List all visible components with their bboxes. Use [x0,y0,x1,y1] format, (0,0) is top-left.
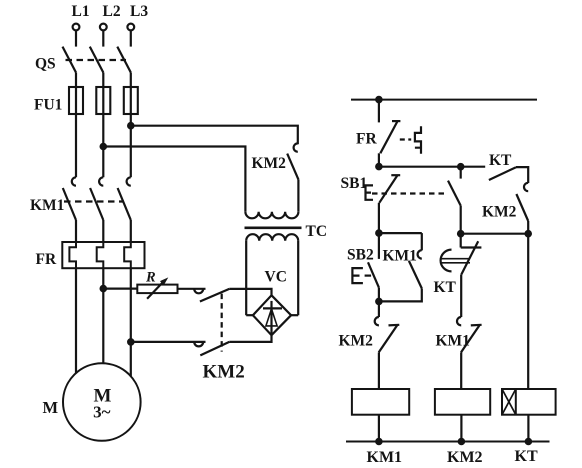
timer KT delay lines [442,259,471,263]
transformer TC primary winding [245,212,298,219]
contactor KM1 main pole2 fixed hook [99,177,103,185]
contactor KM1 main pole1 fixed hook [72,177,76,185]
coil KM2 [435,389,490,415]
timer KT delayed NC contact tick [461,246,482,248]
svg-text:L3: L3 [130,3,148,20]
button SB1 linkage dashed [372,192,447,194]
contactor KM2 braking contact upper blade [200,289,229,302]
thermal relay FR box [62,242,144,268]
wire resistor to KM2 braking contact [178,288,206,290]
wire KM1 coil to rail [378,415,380,442]
thermal relay FR NC contact blade [380,121,397,153]
timer KT delay arc [441,250,452,272]
wire node C to node D [461,233,529,235]
wire KT coil to rail [527,415,529,442]
wire L3 QS to KM1 [130,73,132,178]
node tap L3 to KM2/TC [128,123,133,128]
svg-text:KT: KT [515,448,538,465]
switch QS pole2 blade [90,47,104,73]
svg-text:VC: VC [265,269,287,286]
wire KM2 braking lower to VC minus [229,335,271,342]
contactor KM1 NC fixed hook [457,317,461,325]
rectifier VC bridge diamond [253,295,291,335]
control circuit bottom rail [346,441,550,443]
wire stub VC right [291,314,298,316]
button SB1 NO pole wire top [460,167,462,179]
coil KT cross X [502,389,516,415]
wire SB2 to node E [378,288,380,302]
wire TC secondary left to VC [245,241,247,316]
motor M circle [63,363,141,441]
transformer TC core [245,227,302,230]
switch QS pole1 blade [63,47,77,73]
thermal relay FR NC contact tick [392,120,400,122]
wire FR pole3 to motor [130,268,132,376]
fuse FU1 pole3 [124,87,138,114]
wire KT contact to KM2 NC [516,167,528,183]
wire node E to KM2 NC [378,301,380,317]
coil KT [502,389,556,415]
svg-text:SB2: SB2 [347,247,374,264]
node tap L3 braking [128,339,133,344]
svg-text:KM1: KM1 [367,449,403,466]
resistor R arrowhead [160,277,168,285]
node A junction [376,164,381,169]
svg-text:KM2: KM2 [482,204,517,221]
wire tap to resistor R [103,288,137,290]
contactor KM2 contact blade (transformer feed) [287,154,298,180]
wire node C to KT delayed contact [460,234,462,248]
wire KT delayed contact to KM1 NC [460,274,462,317]
svg-text:KM1: KM1 [30,197,64,214]
button SB1 NO pole blade [448,181,461,206]
svg-text:FU1: FU1 [34,97,62,114]
contactor KM1 main pole1 blade [63,188,76,220]
node KM2 rail junction [459,439,464,444]
wire SB1 to node B [378,203,380,233]
wire KM2 braking upper to VC plus [229,289,271,296]
rectifier VC diode triangle [266,309,277,326]
thermal relay FR trip dashed link [400,138,411,140]
resistor R body [137,285,177,294]
wire L2 terminal to QS [102,30,104,46]
thermal relay FR heater pole3 [124,242,131,268]
wire KM2 NC to KM1 coil [378,352,380,389]
terminal L1 [73,24,80,31]
button SB2 actuator dash [365,275,372,277]
contactor KM2 NC blade (main branch) [379,325,398,352]
svg-text:KM2: KM2 [339,333,374,350]
contactor KM1 NC tick [471,324,482,327]
contactor KM1 aux NO blade [409,261,422,289]
button SB1 NC contact blade [379,176,397,203]
wire FR pole1 to motor [75,268,77,373]
wire KM1 NC to KM2 coil [460,352,462,389]
svg-text:KM2: KM2 [447,449,483,466]
node D junction [526,231,531,236]
fuse FU1 pole2 [96,87,110,114]
timer KT delayed NC contact blade [461,241,478,274]
thermal relay FR heater pole2 [97,242,104,268]
svg-text:QS: QS [35,56,56,73]
transformer TC secondary winding [246,234,298,241]
terminal L2 [100,24,107,31]
node top rail junction [376,97,381,102]
contactor KM1 linkage dashed [64,200,124,202]
switch QS pole3 blade [117,47,131,73]
button SB1 actuator [366,185,374,199]
wire KM1 pole3 to FR [130,220,132,242]
svg-text:SB1: SB1 [341,175,368,192]
wire node D to KT coil [527,234,529,389]
contactor KM2 NC fixed hook (interlock) [524,183,528,191]
wire TC secondary right to VC [297,241,299,316]
wire L1 terminal to QS [75,30,77,46]
wire stub VC left [246,314,253,316]
node C junction [458,231,463,236]
svg-text:KM1: KM1 [383,247,417,264]
timer KT NO contact blade [489,167,516,180]
wire KM1 aux bottom [379,288,422,301]
node KT rail junction [526,439,531,444]
svg-text:KT: KT [489,152,512,169]
svg-text:FR: FR [36,251,57,268]
contactor KM2 NC tick (main branch) [389,324,400,327]
wire tap L3 to KM2 braking lower [131,341,206,343]
wire KM1 aux branch top [421,233,423,250]
resistor R arrow [147,281,164,299]
wire L3 terminal to QS [130,30,132,46]
node E junction [376,299,381,304]
wire KM2 contact to TC primary right [297,179,299,211]
svg-text:KT: KT [434,279,457,296]
node tap L2 braking resistor [101,286,106,291]
switch QS linkage dashed [66,59,127,61]
contactor KM2 braking contact lower blade [200,342,229,356]
node above SB1 second pole [458,164,463,169]
wire KM2 NC to node D [527,221,529,234]
wire tap L2 to TC primary left [103,147,245,212]
button SB2 wire top [378,233,380,259]
wire FR contact to node A [378,153,380,166]
contactor KM2 braking linkage dashed [221,294,223,352]
contactor KM1 main pole3 blade [118,188,131,220]
svg-text:3~: 3~ [93,403,111,422]
svg-text:KM2: KM2 [203,362,245,383]
svg-text:M: M [43,398,59,417]
wire FR pole2 to motor [102,268,104,363]
svg-text:KM2: KM2 [252,155,287,172]
contactor KM2 braking contact lower fixed hook [194,342,203,347]
wire SB1 NO pole to node C [460,206,462,234]
coil KT divider [515,389,517,415]
contactor KM1 NC blade [461,325,480,352]
wire node B to KM1 aux branch [379,232,422,234]
svg-text:FR: FR [356,131,377,148]
wire KM2 coil to rail [460,415,462,442]
contactor KM2 NC fixed hook (main branch) [375,317,379,325]
rectifier VC diode bar [263,307,282,309]
svg-text:L1: L1 [72,3,90,20]
contactor KM1 main pole2 blade [90,188,103,220]
wire KM1 pole1 to FR [75,220,77,242]
contactor KM1 aux NO fixed hook [418,250,422,258]
wire rail to FR contact [378,100,380,123]
node KM1 rail junction [376,439,381,444]
wire node A to KT branch [379,166,485,168]
svg-text:L2: L2 [103,3,121,20]
terminal L3 [127,24,134,31]
wire L1 QS to KM1 [75,73,77,178]
wire L2 QS to KM1 [102,73,104,178]
button SB1 NC contact tick [391,174,400,176]
control circuit top rail [351,99,537,101]
rectifier VC diode wire [270,301,272,334]
svg-text:KM1: KM1 [436,333,470,350]
thermal relay FR trip bracket [415,126,421,154]
button SB2 actuator [352,268,363,283]
contactor KM2 contact fixed hook (transformer feed) [294,143,298,151]
coil KM1 [352,389,409,415]
node tap L2 to TC [101,144,106,149]
thermal relay FR heater pole1 [69,242,76,268]
wire tap L3 to KM2 contact [131,126,298,145]
contactor KM2 NC blade (interlock) [516,194,528,221]
node B junction [376,230,381,235]
contactor KM1 main pole3 fixed hook [127,177,131,185]
wire KM1 pole2 to FR [102,220,104,242]
contactor KM2 braking contact upper fixed hook [194,289,203,294]
button SB2 NO blade [368,262,379,287]
svg-text:R: R [145,270,156,286]
fuse FU1 pole1 [69,87,83,114]
svg-text:TC: TC [306,223,328,240]
